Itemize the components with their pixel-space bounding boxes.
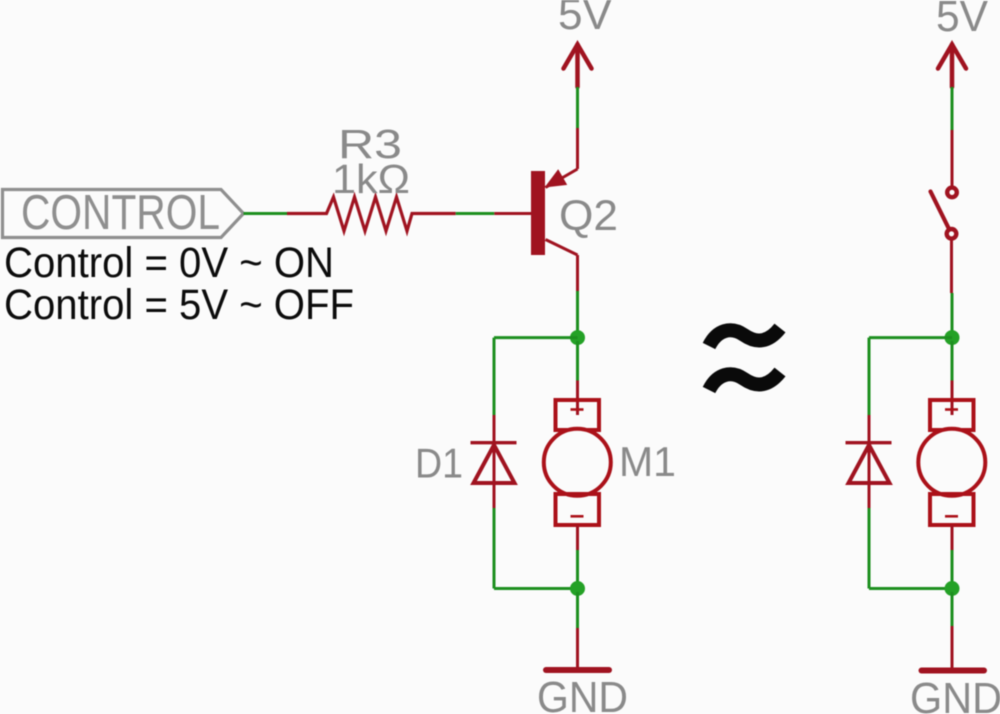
ground pin right (red) bbox=[951, 626, 954, 668]
junction node C (right top) bbox=[945, 330, 960, 345]
label 1kΩ bbox=[332, 156, 410, 202]
motor right pin bottom bbox=[951, 525, 954, 550]
ground pin left (red) bbox=[576, 628, 579, 668]
junction node B (bottom) bbox=[570, 581, 585, 596]
switch S1 bbox=[931, 188, 957, 239]
transistor Q2 collector pin bbox=[546, 240, 578, 292]
wire D1 bottom net (green) bbox=[494, 508, 578, 589]
motor right pin top bbox=[951, 381, 954, 416]
wire junction to right motor (green) bbox=[951, 341, 954, 381]
transistor Q2 emitter pin bbox=[546, 128, 578, 188]
label CONTROL text bbox=[21, 186, 220, 240]
wire emitter net (green) bbox=[576, 87, 579, 128]
wire junction to M1 top (green) bbox=[576, 341, 579, 381]
label R3 bbox=[338, 121, 402, 167]
transistor Q2 base pin bbox=[494, 212, 531, 215]
wire switch to junction (green) bbox=[951, 293, 954, 334]
svg-text:GND: GND bbox=[910, 674, 1000, 714]
wire junction to right ground (green) bbox=[951, 592, 954, 626]
wire junction to ground (green) bbox=[576, 592, 579, 628]
ground symbol left bbox=[546, 667, 609, 673]
diode right pins bbox=[868, 415, 871, 508]
label 5V left supply bbox=[558, 0, 613, 39]
svg-text:Control = 0V ~ ON: Control = 0V ~ ON bbox=[4, 239, 334, 287]
label GND left bbox=[537, 673, 628, 714]
diode D1 pins bbox=[493, 415, 496, 508]
approx equals symbol bbox=[709, 328, 780, 390]
wire collector net to junction (green) bbox=[576, 291, 579, 334]
wire junction to D1 top (green) bbox=[494, 338, 578, 415]
annotation Control = 5V ~ OFF bbox=[4, 281, 354, 329]
motor right bbox=[918, 400, 985, 525]
ground symbol right bbox=[922, 668, 985, 674]
wire CONTROL to R3 (green) bbox=[244, 212, 288, 215]
wire junction to right diode (green) bbox=[869, 338, 952, 415]
label 5V right supply bbox=[936, 0, 989, 41]
svg-text:Control = 5V ~ OFF: Control = 5V ~ OFF bbox=[4, 281, 354, 329]
wire right motor to junction (green) bbox=[951, 550, 954, 585]
wire M1 bottom to junction (green) bbox=[576, 550, 579, 585]
motor M1 pin top bbox=[576, 381, 579, 416]
svg-text:5V: 5V bbox=[558, 0, 613, 39]
svg-text:M1: M1 bbox=[619, 438, 676, 485]
wire R3 to Q2 base (green) bbox=[456, 212, 495, 215]
supply 5V symbol right (arrow) bbox=[938, 45, 966, 88]
switch S1 pin top (red) bbox=[951, 130, 954, 187]
transistor Q2 base bar bbox=[531, 171, 545, 255]
junction node D (right bottom) bbox=[945, 581, 960, 596]
junction node A (top) bbox=[570, 330, 585, 345]
label M1 bbox=[619, 438, 676, 485]
svg-text:CONTROL: CONTROL bbox=[21, 186, 220, 240]
wire 5V to switch (green) bbox=[951, 87, 954, 130]
label D1 bbox=[415, 440, 463, 487]
motor M1 bbox=[544, 400, 611, 525]
motor M1 pin bottom bbox=[576, 525, 579, 550]
label GND right bbox=[910, 674, 1000, 714]
supply 5V symbol left (arrow) bbox=[564, 45, 592, 88]
svg-text:1kΩ: 1kΩ bbox=[332, 156, 410, 202]
resistor R3 bbox=[287, 197, 456, 231]
label Q2 bbox=[559, 192, 618, 240]
svg-text:Q2: Q2 bbox=[559, 192, 618, 240]
wire right diode bottom net (green) bbox=[869, 508, 952, 589]
annotation Control = 0V ~ ON bbox=[4, 239, 334, 287]
net label CONTROL flag bbox=[3, 190, 244, 238]
svg-text:GND: GND bbox=[537, 673, 628, 714]
svg-text:5V: 5V bbox=[936, 0, 989, 41]
diode right bbox=[846, 443, 892, 483]
transistor Q2 emitter arrow bbox=[545, 169, 568, 187]
diode D1 bbox=[471, 443, 517, 483]
svg-text:D1: D1 bbox=[415, 440, 463, 487]
switch S1 pin bottom (red) bbox=[950, 240, 953, 293]
